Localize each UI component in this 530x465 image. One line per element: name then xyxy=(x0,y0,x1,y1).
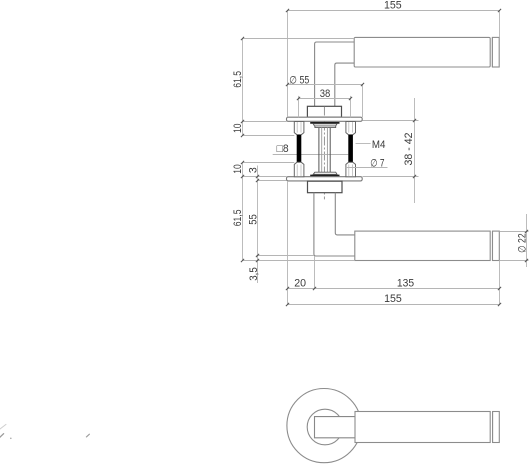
extension line grip bottom left xyxy=(243,260,355,262)
leader line M4 xyxy=(356,143,371,145)
faint stray marks (bottom-left of sheet) xyxy=(0,424,89,439)
left bolt lower body xyxy=(294,162,304,176)
extension line bolt shoulder left xyxy=(243,135,295,137)
grip end ring (face-on) xyxy=(492,412,494,443)
svg-text:∅ 55: ∅ 55 xyxy=(289,75,309,87)
dim 38: right extension line xyxy=(350,96,352,117)
svg-text:3,5: 3,5 xyxy=(248,267,260,280)
dim 155 top: left extension line (shared with dia55) xyxy=(287,11,289,118)
extension line neck left bottom xyxy=(314,256,316,289)
grip end ring (front view) xyxy=(492,231,494,260)
top rosette plate xyxy=(287,117,363,121)
grip barrel (face-on) xyxy=(355,412,490,443)
extension line grip top to left xyxy=(243,38,355,40)
dim 38: dimension line xyxy=(299,98,351,100)
centerline xyxy=(323,107,325,200)
dim 20/135: dimension line xyxy=(288,288,500,290)
leader line square-8 xyxy=(273,154,349,156)
grip barrel (top view) xyxy=(354,37,490,67)
extension line bottom plate top left xyxy=(243,176,287,178)
extension line rosette left bottom xyxy=(287,181,289,305)
bottom rosette plate xyxy=(287,177,363,181)
top collar step 1 xyxy=(313,124,337,126)
hub (front view) xyxy=(308,181,343,193)
spindle column outer lines xyxy=(318,128,320,173)
extension line neck bottom left xyxy=(256,255,314,257)
ticks 38 xyxy=(297,97,300,100)
grip end cap (front view) xyxy=(493,231,500,260)
svg-text:∅ 7: ∅ 7 xyxy=(370,157,384,169)
grip end cap (face-on) xyxy=(493,412,500,443)
dim 38-42: dimension line xyxy=(414,98,416,203)
dim 155 top: right extension line xyxy=(499,11,501,38)
leader line dia7 xyxy=(346,167,388,169)
svg-text:3: 3 xyxy=(248,167,260,173)
dim 155 top: dimension line xyxy=(288,10,500,12)
dim dia55: right extension line xyxy=(362,85,364,118)
hub (top view) xyxy=(307,106,341,117)
dim 38-42: bottom extension line xyxy=(363,176,419,178)
dim dia22: bottom extension line xyxy=(500,260,529,262)
svg-text:M4: M4 xyxy=(372,139,386,151)
dim 38-42: top extension line xyxy=(363,120,419,122)
second left vertical dimension line (3 / 55 / 3.5) xyxy=(257,166,259,284)
ticks 20/135 xyxy=(286,287,289,290)
left vertical dimension line lower (10 / 61.5) xyxy=(242,163,244,261)
rosette circle xyxy=(287,389,361,463)
ticks dia55 xyxy=(286,83,289,86)
bottom collar step xyxy=(313,172,337,174)
right bolt threaded rod xyxy=(348,135,353,162)
svg-text:155: 155 xyxy=(384,293,402,305)
extension line bottom plate bottom left xyxy=(258,180,287,182)
top collar dark bar xyxy=(310,122,339,124)
ticks dia22 xyxy=(525,230,528,233)
svg-text:□8: □8 xyxy=(277,143,289,155)
ticks 38-42 xyxy=(413,119,416,122)
right bolt lower body xyxy=(346,162,356,176)
hub circle xyxy=(307,409,343,445)
extension line bolt lower shoulder left xyxy=(243,162,295,164)
ticks dim 155 top xyxy=(286,9,289,12)
extension line plate bottom-left xyxy=(243,121,287,123)
tick marks xyxy=(241,9,528,306)
svg-text:20: 20 xyxy=(294,278,306,290)
svg-text:155: 155 xyxy=(384,0,402,11)
ticks second left column xyxy=(256,175,259,178)
left bolt upper body xyxy=(294,122,304,135)
extension line grip right bottom xyxy=(499,261,501,305)
svg-text:∅ 22: ∅ 22 xyxy=(516,233,528,253)
bottom collar dark bar xyxy=(310,175,339,177)
spindle column inner lines xyxy=(321,128,323,173)
dim dia22: dimension line xyxy=(526,214,528,267)
top collar step 2 xyxy=(315,126,336,128)
neck tube (face-on) xyxy=(315,417,356,438)
neck tube (top view) xyxy=(315,42,355,106)
svg-text:61,5: 61,5 xyxy=(232,71,244,88)
svg-text:61,5: 61,5 xyxy=(232,209,244,226)
left bolt threaded rod xyxy=(297,135,302,162)
svg-text:38 - 42: 38 - 42 xyxy=(403,132,415,165)
grip end ring (top view) xyxy=(491,37,493,67)
svg-text:38: 38 xyxy=(320,88,331,100)
ticks left column xyxy=(241,37,244,40)
svg-text:10: 10 xyxy=(232,123,244,133)
svg-text:135: 135 xyxy=(397,278,414,290)
left vertical dimension line upper (61.5 / 10) xyxy=(242,39,244,136)
grip barrel (front view) xyxy=(355,231,490,260)
dim dia22: top extension line xyxy=(500,231,529,233)
neck tube (front view) xyxy=(314,193,355,256)
svg-text:10: 10 xyxy=(232,164,244,174)
right bolt upper body xyxy=(346,122,356,135)
dim 38: left extension line xyxy=(298,96,300,117)
grip end cap (top view) xyxy=(492,37,499,67)
ticks 155 bottom xyxy=(286,303,289,306)
dim 155 bottom: dimension line xyxy=(288,304,500,306)
svg-text:55: 55 xyxy=(248,214,260,225)
dim dia55: dimension line xyxy=(288,84,363,86)
